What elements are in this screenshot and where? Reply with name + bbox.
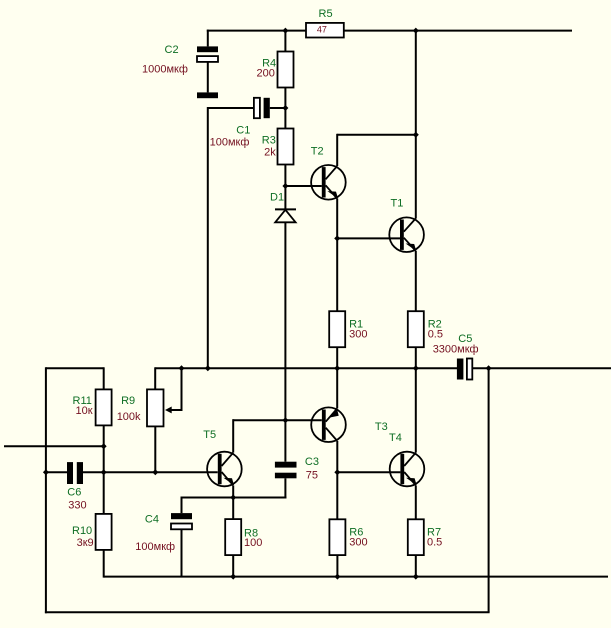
- resistor R11: [96, 389, 112, 425]
- wire C4 bottom: [181, 529, 183, 576]
- node C6-R10: [101, 469, 107, 475]
- wire T2 emitter vertical: [336, 199, 338, 312]
- wire R11 top link: [103, 367, 105, 389]
- node R4-R3-C1: [282, 105, 288, 111]
- resistor R4: [278, 52, 294, 88]
- wire C4 top: [181, 497, 183, 514]
- label R8: [244, 527, 258, 539]
- label T1: [391, 198, 404, 210]
- value R6 300: [349, 536, 367, 548]
- value R4 200: [257, 68, 275, 80]
- svg-text:300: 300: [349, 329, 367, 341]
- value R5 47: [317, 25, 327, 35]
- node bus-R1-T3: [334, 365, 340, 371]
- label C1: [236, 125, 250, 137]
- svg-text:3к9: 3к9: [77, 537, 94, 549]
- capacitor C4: [171, 513, 192, 529]
- wire T2 collector horizontal: [337, 134, 416, 136]
- potentiometer R9: [147, 389, 164, 426]
- capacitor C1: [254, 98, 270, 118]
- svg-text:1000мкф: 1000мкф: [142, 64, 188, 76]
- svg-text:0.5: 0.5: [428, 329, 443, 341]
- wire R7 bottom: [415, 555, 417, 577]
- wire top rail right segment: [344, 30, 572, 32]
- svg-text:100: 100: [244, 537, 262, 549]
- wire bottom line: [45, 611, 490, 613]
- svg-text:T1: T1: [391, 198, 404, 210]
- resistor R10: [96, 514, 112, 550]
- label R9: [121, 395, 135, 407]
- label R11: [73, 395, 92, 407]
- svg-text:C4: C4: [145, 514, 159, 526]
- value C1 100мкф: [210, 136, 250, 148]
- wire T4 base: [337, 471, 400, 473]
- svg-text:C1: C1: [236, 125, 250, 137]
- resistor R3: [278, 129, 294, 165]
- wire R9 bottom: [154, 426, 156, 472]
- wire T4 collector vertical: [415, 368, 417, 452]
- wire right loop vertical: [488, 368, 490, 612]
- node bus-wiper: [179, 365, 185, 371]
- svg-text:T2: T2: [311, 146, 324, 158]
- label C5: [458, 333, 472, 345]
- label T2: [311, 146, 324, 158]
- value C3 75: [306, 470, 318, 482]
- wire R10 top: [103, 472, 105, 514]
- wire T1 base: [337, 237, 400, 239]
- node T3coll-T4base: [334, 469, 340, 475]
- wire bus left segment: [46, 367, 104, 369]
- value R2 0.5: [428, 329, 443, 341]
- wire C6 right link: [83, 471, 104, 473]
- wire R9 top: [154, 367, 156, 389]
- wire C5 right: [472, 367, 611, 369]
- resistor R8: [225, 519, 241, 555]
- svg-text:R3: R3: [262, 135, 276, 147]
- wire T5 base: [155, 471, 217, 473]
- wire R1 bottom: [336, 347, 338, 368]
- wire left vertical: [45, 367, 47, 613]
- wire T5 emitter vertical: [232, 485, 234, 497]
- wire R10 bottom: [103, 550, 105, 578]
- label C4: [145, 514, 159, 526]
- label C2: [165, 44, 179, 56]
- svg-text:75: 75: [306, 470, 318, 482]
- node R7-bottombus: [413, 574, 419, 580]
- wire C6 left link: [46, 471, 67, 473]
- resistor R1: [329, 311, 345, 347]
- wire T2 collector vertical: [336, 134, 338, 166]
- label R1: [349, 319, 363, 331]
- node T2emit-T1base: [334, 235, 340, 241]
- svg-text:C3: C3: [305, 456, 319, 468]
- value R10 3к9: [77, 537, 94, 549]
- wire T2 base: [285, 185, 321, 187]
- label R2: [428, 319, 442, 331]
- svg-text:100мкф: 100мкф: [135, 541, 175, 553]
- value R8 100: [244, 537, 262, 549]
- wire C3 top vertical: [284, 420, 286, 462]
- wire R9 wiper vertical: [181, 368, 183, 410]
- transistor T3: [311, 407, 346, 442]
- label R7: [427, 526, 441, 538]
- wire T5 collector horizontal / T3 base: [233, 419, 322, 421]
- wire T3 emitter vertical: [336, 368, 338, 408]
- capacitor C2: [197, 46, 218, 98]
- wire bottom bus: [104, 576, 608, 578]
- label T5: [203, 429, 216, 441]
- wire T5 collector vertical: [232, 419, 234, 452]
- node T2coll-rightcol: [413, 132, 419, 138]
- svg-text:300: 300: [349, 536, 367, 548]
- svg-text:C2: C2: [165, 44, 179, 56]
- node D1-C3-T3base: [282, 417, 288, 423]
- label C3: [305, 456, 319, 468]
- resistor R7: [408, 519, 424, 555]
- wire R11 bottom: [103, 425, 105, 472]
- node R9bottom-line: [152, 469, 158, 475]
- wire R6 bottom: [336, 555, 338, 577]
- resistor R5: [306, 23, 344, 38]
- wire R3 bottom: [284, 165, 286, 187]
- label T4: [389, 432, 402, 444]
- wire C1 right: [270, 107, 286, 109]
- value C6 330: [68, 500, 86, 512]
- svg-text:T3: T3: [375, 421, 388, 433]
- capacitor C3: [275, 462, 297, 479]
- capacitor C5: [457, 359, 472, 380]
- wire C3 bottom vertical: [284, 478, 286, 498]
- transistor T5: [207, 452, 242, 487]
- wire R8 bottom: [232, 555, 234, 577]
- node R3-D1-T2base: [282, 183, 288, 189]
- transistor T2: [311, 165, 346, 200]
- wire right column vertical: [415, 30, 417, 219]
- svg-text:D1: D1: [270, 192, 284, 204]
- value C5 3300мкф: [433, 343, 479, 355]
- svg-text:T4: T4: [389, 432, 402, 444]
- value R9 100k: [117, 411, 141, 423]
- wire top rail left segment: [207, 30, 306, 32]
- node bus-R2-T4: [413, 365, 419, 371]
- wire input line: [4, 445, 104, 447]
- wiper arrow R9: [165, 407, 172, 414]
- svg-text:200: 200: [257, 68, 275, 80]
- node rail-right column: [413, 28, 419, 34]
- wire T1 emitter to R2: [415, 251, 417, 311]
- label R3: [262, 135, 276, 147]
- value R11 10к: [76, 405, 93, 417]
- diode D1: [275, 209, 296, 222]
- svg-text:C6: C6: [67, 486, 81, 498]
- wire T3 collector vertical: [336, 441, 338, 519]
- svg-text:R10: R10: [72, 525, 92, 537]
- wire C6 line mid: [104, 471, 156, 473]
- label C6: [67, 486, 81, 498]
- node input-R11R10: [101, 443, 107, 449]
- node rail-R4: [282, 28, 288, 34]
- svg-text:10к: 10к: [76, 405, 93, 417]
- node R6-bottombus: [334, 574, 340, 580]
- svg-text:R9: R9: [121, 395, 135, 407]
- svg-text:330: 330: [68, 500, 86, 512]
- label R4: [262, 58, 276, 70]
- label T3: [375, 421, 388, 433]
- node C5-loop: [486, 365, 492, 371]
- wire C1 left horizontal: [208, 107, 254, 109]
- svg-text:100k: 100k: [117, 411, 141, 423]
- resistor R6: [329, 519, 345, 555]
- transistor T4: [390, 452, 425, 487]
- svg-text:0.5: 0.5: [427, 536, 442, 548]
- resistor R2: [408, 311, 424, 347]
- node bus-C1line: [205, 365, 211, 371]
- node C6 left: [43, 469, 49, 475]
- svg-text:100мкф: 100мкф: [210, 136, 250, 148]
- transistor T1: [389, 217, 424, 252]
- label R6: [349, 526, 363, 538]
- svg-text:R5: R5: [319, 8, 333, 20]
- wire T4 emitter vertical: [415, 485, 417, 519]
- wire emitter node horizontal: [182, 497, 287, 499]
- svg-text:T5: T5: [203, 429, 216, 441]
- node T5emit-C4-C3-R8: [230, 495, 236, 501]
- wire R4 top: [284, 30, 286, 52]
- node R8-bottombus: [230, 574, 236, 580]
- wire D1 top: [284, 186, 286, 209]
- value C2 1000мкф: [142, 64, 188, 76]
- wire R2 bottom: [415, 347, 417, 368]
- svg-text:47: 47: [317, 25, 327, 35]
- wire R8 top: [232, 498, 234, 520]
- wire D1 bottom long: [284, 222, 286, 420]
- label R5: [319, 8, 333, 20]
- value R3 2k: [264, 146, 276, 158]
- label R10: [72, 525, 92, 537]
- label D1: [270, 192, 284, 204]
- value R1 300: [349, 329, 367, 341]
- wire R4-R3: [284, 88, 286, 129]
- wire C1 left vertical to bus: [207, 107, 209, 368]
- capacitor C6: [67, 462, 83, 484]
- value R7 0.5: [427, 536, 442, 548]
- wire R9 wiper horizontal: [170, 409, 183, 411]
- value C4 100мкф: [135, 541, 175, 553]
- svg-text:3300мкф: 3300мкф: [433, 343, 479, 355]
- svg-text:2k: 2k: [264, 146, 276, 158]
- wire bus main: [155, 367, 457, 369]
- wire C2 top stem: [207, 30, 209, 47]
